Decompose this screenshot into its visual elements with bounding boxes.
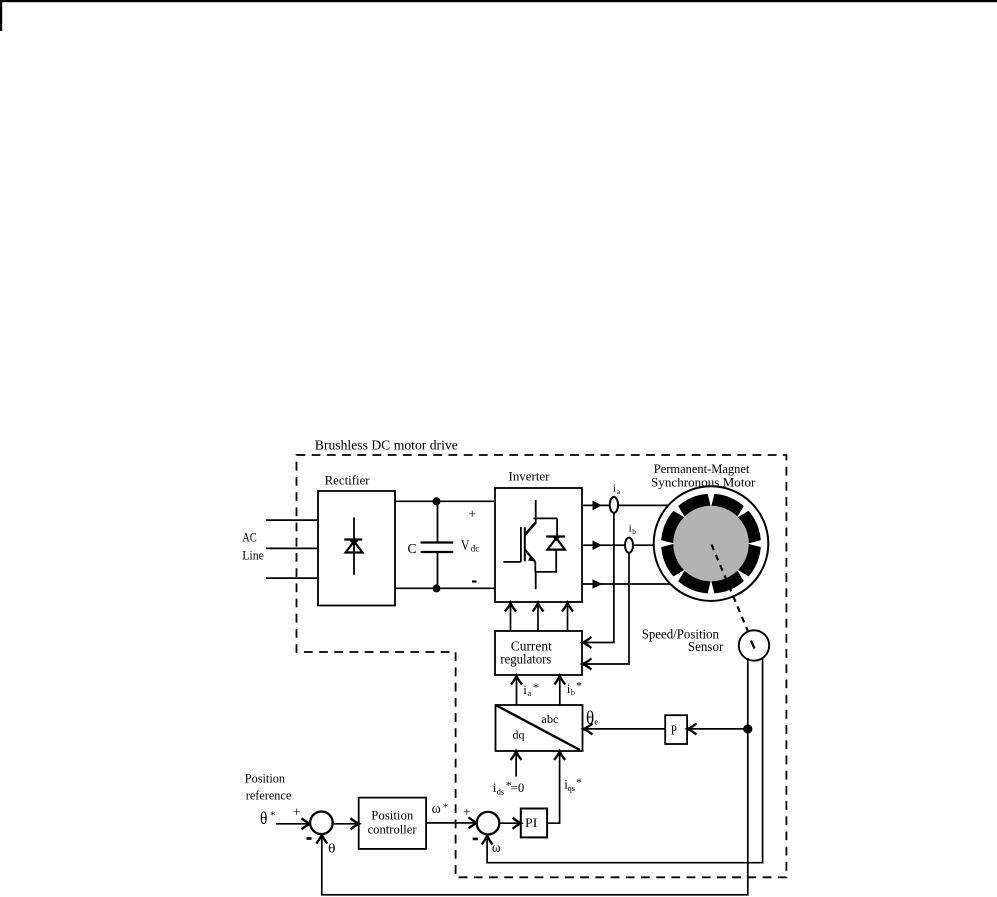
- current sensor ia: [610, 497, 618, 513]
- summing junction 2: [477, 812, 500, 835]
- arrow ia*: [511, 676, 522, 685]
- svg-text:P: P: [671, 723, 677, 738]
- wire junction2 to PI: [499, 822, 519, 824]
- svg-text:i: i: [613, 482, 616, 494]
- arrow gate 1: [505, 603, 516, 612]
- wire DC bus bottom: [395, 587, 495, 589]
- arrow ib*: [554, 676, 565, 685]
- svg-text:+: +: [468, 508, 476, 523]
- svg-text:Rectifier: Rectifier: [325, 473, 371, 488]
- dq-abc diagonal: [496, 705, 581, 750]
- svg-text:θ: θ: [328, 840, 336, 855]
- P box: [665, 715, 687, 744]
- wire ia sensor drop: [584, 513, 614, 643]
- PMSM rotor: [673, 506, 749, 582]
- arrow gate 3: [562, 603, 573, 612]
- arrow theta_e into dq box: [584, 724, 593, 735]
- wire AC phase 2: [266, 547, 318, 549]
- svg-text:ds: ds: [497, 787, 504, 796]
- svg-text:Inverter: Inverter: [509, 469, 551, 484]
- arrow into current regulators (ia): [583, 637, 592, 648]
- svg-text:C: C: [408, 542, 417, 557]
- rectifier box: [318, 491, 395, 606]
- svg-text:Brushless DC motor drive: Brushless DC motor drive: [315, 439, 458, 454]
- wire ia* reference: [516, 676, 518, 705]
- svg-text:b: b: [632, 527, 636, 536]
- arrow into position controller: [351, 818, 360, 829]
- svg-text:b: b: [571, 688, 575, 697]
- wire sensor theta drop: [322, 658, 748, 895]
- current sensor ib: [625, 538, 633, 553]
- sensor circle: [739, 630, 769, 660]
- svg-text:+: +: [293, 806, 301, 821]
- svg-text:a: a: [617, 487, 621, 496]
- svg-text:*: *: [576, 775, 582, 789]
- wire junction to P: [689, 728, 748, 730]
- IGBT symbol inside inverter: [503, 500, 557, 589]
- arrow into summing junction 2: [469, 817, 478, 828]
- wire ib* reference: [559, 676, 561, 705]
- arrow into current regulators (ib): [583, 659, 592, 670]
- stator slots (white wedges): [639, 472, 782, 615]
- wire DC bus top: [395, 500, 495, 502]
- wire position reference input: [276, 823, 309, 825]
- arrow phase c: [593, 579, 603, 589]
- wire inverter phase b: [582, 544, 655, 546]
- diode symbol inside inverter: [546, 537, 565, 572]
- inverter box: [495, 488, 582, 602]
- svg-text:ω: ω: [432, 801, 441, 817]
- svg-text:PI: PI: [525, 815, 537, 830]
- svg-text:reference: reference: [246, 788, 292, 803]
- arrow ids* into dq box: [511, 751, 522, 760]
- shaft dash inside sensor: [751, 641, 755, 649]
- svg-text:controller: controller: [368, 822, 418, 837]
- current regulators box: [495, 631, 582, 675]
- svg-text:Position: Position: [371, 808, 413, 823]
- label - (junction 2): [473, 838, 478, 841]
- arrow into P box: [688, 724, 697, 735]
- svg-text:*: *: [576, 679, 582, 693]
- arrow phase a: [593, 501, 603, 511]
- wire inverter phase a: [582, 504, 669, 506]
- position controller box: [359, 798, 426, 849]
- wire AC phase 3: [266, 577, 318, 579]
- capacitor C: [421, 501, 454, 588]
- gate wire 1: [510, 603, 512, 632]
- svg-text:*: *: [443, 802, 449, 814]
- wire position controller to junction 2: [426, 822, 475, 824]
- svg-text:θ: θ: [260, 808, 267, 828]
- svg-text:a: a: [528, 689, 532, 698]
- junction dot top of capacitor: [433, 497, 441, 505]
- gate wire 3: [567, 603, 569, 632]
- arrow theta into summing junction 1: [316, 835, 327, 844]
- wire junction1 to position controller: [333, 823, 357, 825]
- label - (junction 1): [307, 837, 312, 840]
- svg-text:Sensor: Sensor: [688, 639, 724, 654]
- dq to abc transform box: [496, 705, 583, 751]
- svg-text:=0: =0: [511, 780, 525, 795]
- wire theta_e from P: [585, 728, 665, 730]
- arrow iqs* into dq box: [554, 751, 565, 760]
- PI box: [521, 809, 547, 838]
- svg-text:Position: Position: [245, 771, 286, 786]
- shaft dashed line: [712, 545, 753, 642]
- arrow gate 2: [533, 603, 544, 612]
- arrow into summing junction 1: [302, 818, 311, 829]
- junction dot bottom of capacitor: [433, 584, 441, 592]
- svg-text:Line: Line: [242, 548, 264, 563]
- PMSM motor outer circle: [654, 486, 769, 601]
- svg-text:V: V: [461, 538, 470, 554]
- arrow into PI: [513, 818, 522, 829]
- page top rule: [0, 0, 997, 2]
- diode symbol inside rectifier: [344, 517, 362, 574]
- svg-text:*: *: [270, 810, 276, 822]
- wire PI to dq box (iqs*): [547, 753, 560, 823]
- arrow phase b: [593, 540, 603, 550]
- svg-text:abc: abc: [541, 714, 558, 726]
- wire ids*=0: [515, 753, 517, 777]
- arrow omega into summing junction 2: [482, 836, 493, 845]
- dashed boundary: Brushless DC motor drive: [297, 455, 787, 877]
- svg-text:dq: dq: [513, 728, 525, 742]
- svg-text:AC: AC: [242, 530, 257, 545]
- svg-text:dc: dc: [471, 544, 480, 554]
- wire inverter phase c: [582, 583, 671, 585]
- svg-text:regulators: regulators: [500, 653, 551, 668]
- PMSM stator ring: [661, 494, 761, 594]
- junction dot theta feedback: [743, 724, 752, 733]
- svg-text:*: *: [533, 680, 539, 694]
- svg-text:qs: qs: [568, 784, 575, 793]
- gate wire 2: [537, 603, 539, 632]
- svg-text:e: e: [594, 718, 598, 727]
- summing junction 1: [310, 812, 333, 835]
- wire ib sensor drop: [584, 553, 629, 664]
- svg-text:ω: ω: [492, 840, 501, 856]
- wire sensor omega drop: [487, 658, 762, 863]
- label minus dc bus: [472, 580, 477, 582]
- svg-text:+: +: [463, 805, 471, 820]
- page left rule: [0, 0, 2, 31]
- wire AC phase 1: [266, 519, 318, 521]
